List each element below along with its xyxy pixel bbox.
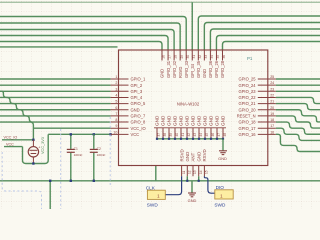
pin 40 stub: [174, 128, 176, 139]
ground symbol right: [219, 150, 227, 152]
wire top pin26 up-left: [0, 42, 162, 51]
pin 46 stub: [210, 128, 212, 139]
svg-text:42: 42: [187, 133, 191, 137]
wire horizontal above IC to left edge: [0, 46, 118, 48]
svg-text:26: 26: [162, 55, 166, 59]
svg-text:20: 20: [270, 106, 274, 110]
junction pin12: [186, 180, 188, 182]
svg-text:43: 43: [193, 133, 197, 137]
wire inner pin tie line: [157, 138, 223, 140]
svg-text:CLK: CLK: [146, 185, 156, 190]
svg-text:18: 18: [270, 118, 274, 122]
svg-text:RSVD: RSVD: [179, 149, 184, 161]
wire pin6 step from left edge: [0, 104, 111, 110]
voltage source plate short: [31, 153, 37, 155]
svg-text:16: 16: [270, 130, 274, 134]
svg-text:GPIO_32: GPIO_32: [172, 60, 177, 78]
svg-text:GPIO_16: GPIO_16: [239, 132, 257, 137]
wire top pin29 up-left: [0, 23, 180, 50]
svg-text:38: 38: [163, 133, 167, 137]
capacitor C1 plates: [67, 148, 75, 150]
wire pin12 to long net: [186, 176, 188, 181]
svg-text:GPIO_5: GPIO_5: [131, 101, 147, 106]
pin 44 end square: [198, 138, 200, 140]
pin 37 stub: [156, 128, 158, 139]
wire pin15 to DIO flag: [204, 176, 214, 193]
svg-text:GND: GND: [160, 69, 165, 78]
wire pin48 to GND: [222, 139, 224, 151]
svg-text:41: 41: [181, 133, 185, 137]
wire top pin34 up-right: [210, 29, 320, 50]
svg-text:ANT: ANT: [191, 152, 196, 161]
wire pin2 GPI_2 to left edge: [0, 84, 111, 86]
junction C2 top: [93, 133, 95, 135]
svg-text:36: 36: [222, 55, 226, 59]
wire source loop bottom: [23, 134, 49, 163]
svg-text:8: 8: [115, 118, 117, 122]
wire pin5 step from left edge: [0, 97, 111, 103]
voltage source bottom stub: [32, 157, 34, 164]
svg-text:29: 29: [180, 55, 184, 59]
svg-text:GPIO_24: GPIO_24: [239, 83, 257, 88]
svg-text:GND: GND: [179, 115, 184, 126]
svg-text:5: 5: [115, 100, 117, 104]
wire right pin24 straight: [276, 84, 320, 86]
net port DIO box: [215, 190, 233, 199]
svg-text:GPIO_7: GPIO_7: [131, 114, 147, 119]
pin 17 GPIO_17 stub: [258, 127, 276, 129]
capacitor C2 plates: [90, 148, 98, 150]
svg-text:C1: C1: [74, 147, 78, 151]
svg-text:46: 46: [211, 133, 215, 137]
svg-text:GPI_34: GPI_34: [190, 63, 195, 78]
pin 8 GPIO_8 stub: [111, 121, 129, 123]
svg-text:40: 40: [175, 133, 179, 137]
pin 14 stub: [198, 166, 200, 177]
svg-text:GPI_3: GPI_3: [131, 89, 143, 94]
wire right pin17 double-step: [276, 128, 320, 140]
pin 36 top stub: [222, 50, 224, 61]
pin 20 GPIO_20 stub: [258, 109, 276, 111]
svg-text:GND: GND: [185, 152, 190, 162]
junction long net drop: [49, 180, 51, 182]
voltage source top stub: [32, 140, 34, 147]
wire right pin22 step-down: [276, 97, 320, 103]
svg-text:GPIO_28: GPIO_28: [220, 60, 225, 78]
svg-text:23: 23: [270, 87, 274, 91]
svg-text:GPIO_8: GPIO_8: [131, 120, 147, 125]
wire pin4 step from left edge: [0, 91, 111, 97]
pin 39 stub: [168, 128, 170, 139]
selection dashed corner bottom-left: [2, 152, 41, 209]
svg-text:GND: GND: [191, 115, 196, 126]
pin 33 top stub: [203, 50, 205, 61]
svg-text:10: 10: [113, 130, 117, 134]
pin 10 VCC stub: [111, 133, 129, 135]
svg-text:GND: GND: [131, 107, 140, 112]
svg-text:GPIO_36: GPIO_36: [208, 60, 213, 78]
svg-text:GPIO_18: GPIO_18: [239, 120, 257, 125]
pin 19 RESET_N stub: [258, 115, 276, 117]
svg-text:GND: GND: [185, 115, 190, 126]
svg-text:GPIO_23: GPIO_23: [239, 89, 257, 94]
wire long bottom net: [0, 180, 320, 182]
svg-text:P1: P1: [247, 56, 253, 61]
svg-text:3: 3: [115, 87, 117, 91]
wire top pin27 up-left: [0, 36, 168, 51]
wire long net to GND: [191, 181, 193, 193]
svg-text:GPIO_22: GPIO_22: [239, 95, 257, 100]
svg-text:14: 14: [199, 170, 203, 174]
inner pin row baseline: [154, 127, 226, 129]
pin 40 end square: [174, 138, 176, 140]
wire pin10 VCC rail: [48, 133, 110, 135]
svg-text:35: 35: [216, 55, 220, 59]
pin 46 end square: [210, 138, 212, 140]
svg-text:30: 30: [186, 55, 190, 59]
junction C1 bottom: [70, 180, 72, 182]
svg-text:4: 4: [115, 93, 117, 97]
wire net VCC_IO stub: [2, 139, 34, 141]
pin 7 GPIO_7 stub: [111, 115, 129, 117]
pin 4 GPI_4 stub: [111, 96, 129, 98]
svg-text:9: 9: [115, 124, 117, 128]
svg-text:19: 19: [270, 112, 274, 116]
svg-text:SWD: SWD: [214, 202, 226, 207]
pin 22 GPIO_22 stub: [258, 96, 276, 98]
svg-text:2: 2: [115, 81, 117, 85]
wire right pin16 deep step: [276, 134, 320, 151]
wire net VCC stub: [4, 146, 23, 148]
wire pin9 VCC_IO step and drop to source: [0, 122, 33, 140]
IC U1 NINA-W102 outline: [119, 50, 268, 166]
wire right pin18 double-step: [276, 122, 320, 134]
svg-text:45: 45: [205, 133, 209, 137]
pin 35 top stub: [215, 50, 217, 61]
svg-text:GPIO_31: GPIO_31: [166, 60, 171, 78]
wire top pin35 up-right: [216, 36, 320, 51]
pin 39 end square: [168, 138, 170, 140]
svg-text:GND: GND: [215, 115, 220, 126]
voltage source plate long: [29, 149, 37, 151]
wire cap C2 top: [93, 134, 95, 149]
selection dashed vertical x110: [109, 117, 111, 186]
junction source bottom: [32, 162, 34, 164]
svg-text:RSVD: RSVD: [202, 149, 207, 161]
pin 3 GPI_3 stub: [111, 90, 129, 92]
svg-text:GND: GND: [221, 115, 226, 126]
svg-text:48: 48: [223, 133, 227, 137]
pin 48 end square: [222, 138, 224, 140]
pin 13 stub: [192, 166, 194, 177]
junction pin14: [198, 180, 200, 182]
pin 42 end square: [186, 138, 188, 140]
svg-text:GPI_2: GPI_2: [131, 83, 143, 88]
pin 38 stub: [162, 128, 164, 139]
svg-text:25: 25: [270, 75, 274, 79]
pin 28 top stub: [173, 50, 175, 61]
pin 2 GPI_2 stub: [111, 84, 129, 86]
svg-text:GND: GND: [155, 115, 160, 126]
pin 41 stub: [180, 128, 182, 139]
pin 42 stub: [186, 128, 188, 139]
svg-text:12: 12: [188, 170, 192, 174]
wire top pin36 up-right: [223, 42, 320, 51]
pin 43 end square: [192, 138, 194, 140]
svg-text:DIO: DIO: [216, 185, 225, 190]
svg-text:GPIO_1: GPIO_1: [131, 77, 147, 82]
svg-text:GND: GND: [188, 198, 197, 203]
svg-text:GND: GND: [196, 152, 201, 162]
svg-text:44: 44: [199, 133, 203, 137]
svg-text:6: 6: [115, 106, 117, 110]
wire top pin28 up-left: [0, 30, 174, 51]
wire pin11 to CLK flag: [166, 176, 182, 194]
wire under IC to long net: [155, 166, 157, 181]
svg-text:11: 11: [182, 170, 186, 174]
wire right pin25 straight: [276, 78, 320, 80]
pin 48 stub: [222, 128, 224, 139]
svg-text:GND: GND: [218, 156, 227, 161]
svg-text:34: 34: [210, 55, 214, 59]
pin 5 GPIO_5 stub: [111, 103, 129, 105]
wire pin3 GPI_3 to left edge: [0, 90, 111, 92]
pin 27 top stub: [167, 50, 169, 61]
wire cap C1 bottom: [70, 153, 72, 181]
pin 15 stub: [203, 166, 205, 177]
pin 23 GPIO_23 stub: [258, 90, 276, 92]
pin 16 GPIO_16 stub: [258, 133, 276, 135]
svg-text:GND: GND: [167, 115, 172, 126]
pin 26 top stub: [161, 50, 163, 61]
voltage source B1 circle: [28, 147, 38, 157]
svg-text:GPIO_21: GPIO_21: [239, 101, 257, 106]
svg-text:GPIO_25: GPIO_25: [239, 77, 257, 82]
svg-text:28: 28: [174, 55, 178, 59]
junction C2 bottom: [93, 180, 95, 182]
svg-text:GND: GND: [209, 115, 214, 126]
pin 21 GPIO_21 stub: [258, 103, 276, 105]
svg-text:13: 13: [193, 170, 197, 174]
pin 47 stub: [216, 128, 218, 139]
pin 38 end square: [162, 138, 164, 140]
net port CLK box: [147, 190, 165, 199]
svg-text:VCC_IO: VCC_IO: [4, 136, 18, 140]
selection dashed vertical x60: [60, 129, 62, 209]
pin 47 end square: [216, 138, 218, 140]
svg-text:GPI_4: GPI_4: [131, 95, 143, 100]
svg-text:17: 17: [270, 124, 274, 128]
wire top pin31 up-left: [191, 2, 193, 50]
svg-text:24: 24: [270, 81, 274, 85]
pin 41 end square: [180, 138, 182, 140]
svg-text:GPIO_17: GPIO_17: [239, 126, 257, 131]
svg-text:VCC_3V3: VCC_3V3: [41, 137, 45, 154]
wire right pin23 straight: [276, 90, 320, 92]
svg-text:SWD: SWD: [147, 203, 159, 208]
svg-text:15: 15: [205, 170, 209, 174]
wire pin7 step from left edge: [0, 110, 111, 116]
wire pin8 step from left edge: [0, 116, 111, 122]
svg-text:37: 37: [157, 133, 161, 137]
pin 11 stub: [181, 166, 183, 177]
svg-text:VCC: VCC: [131, 132, 140, 137]
wire right pin21 step-down: [276, 104, 320, 110]
svg-text:VCC_IO: VCC_IO: [131, 126, 146, 131]
pin 29 top stub: [179, 50, 181, 61]
pin 34 top stub: [209, 50, 211, 61]
svg-text:GND: GND: [202, 69, 207, 78]
svg-text:GPIO_35: GPIO_35: [196, 60, 201, 78]
svg-text:22: 22: [270, 93, 274, 97]
pin 1 GPIO_1 stub: [111, 78, 129, 80]
junction VCC rail end: [109, 133, 111, 135]
pin 31 top stub: [191, 50, 193, 61]
wire pin9 VCC_IO run: [33, 127, 110, 129]
wire cap C1 top: [70, 134, 72, 149]
svg-text:GPIO_26: GPIO_26: [214, 60, 219, 78]
svg-text:21: 21: [270, 100, 274, 104]
svg-text:VCC: VCC: [6, 142, 14, 146]
junction source top: [32, 139, 34, 141]
wire top pin33 up-right: [204, 23, 320, 51]
pin 32 top stub: [197, 50, 199, 61]
pin 9 VCC_IO stub: [111, 127, 129, 129]
pin 6 GND stub: [111, 109, 129, 111]
pin 24 GPIO_24 stub: [258, 84, 276, 86]
svg-text:RESET_N: RESET_N: [237, 114, 256, 119]
svg-text:GPIO_20: GPIO_20: [239, 107, 257, 112]
svg-text:+: +: [38, 146, 40, 150]
wire pin14 to long net: [198, 176, 200, 181]
wire right pin20 double-step: [276, 110, 320, 122]
svg-text:31: 31: [192, 55, 196, 59]
svg-text:100nF: 100nF: [97, 153, 106, 157]
ground symbol bottom: [188, 192, 196, 194]
wire pin1 GPIO_1 to left edge: [0, 78, 111, 80]
pin 12 stub: [186, 166, 188, 177]
pin 45 stub: [204, 128, 206, 139]
junction C1 top: [70, 133, 72, 135]
svg-text:RSVD: RSVD: [178, 67, 183, 78]
svg-text:1: 1: [115, 75, 117, 79]
svg-text:32: 32: [198, 55, 202, 59]
svg-text:C2: C2: [97, 147, 101, 151]
svg-text:GND: GND: [173, 115, 178, 126]
svg-text:GPIO_33: GPIO_33: [184, 60, 189, 78]
wire drop from long net: [49, 181, 51, 209]
pin 45 end square: [204, 138, 206, 140]
svg-text:GND: GND: [161, 115, 166, 126]
pin 37 end square: [156, 138, 158, 140]
svg-text:47: 47: [217, 133, 221, 137]
svg-text:GND: GND: [197, 115, 202, 126]
svg-text:33: 33: [204, 55, 208, 59]
svg-text:7: 7: [115, 112, 117, 116]
wire cap C2 bottom: [93, 153, 95, 181]
pin 43 stub: [192, 128, 194, 139]
svg-text:NINA-W102: NINA-W102: [177, 101, 200, 106]
pin 25 GPIO_25 stub: [258, 78, 276, 80]
svg-text:27: 27: [168, 55, 172, 59]
wire top bus faint full-width: [0, 1, 320, 3]
pin 44 stub: [198, 128, 200, 139]
svg-text:39: 39: [169, 133, 173, 137]
pin 30 top stub: [185, 50, 187, 61]
svg-text:100nF: 100nF: [74, 153, 83, 157]
wire top pin30 up-left: [0, 17, 186, 51]
wire right pin19 double-step: [276, 116, 320, 128]
svg-text:GND: GND: [203, 115, 208, 126]
pin 18 GPIO_18 stub: [258, 121, 276, 123]
wire top pin32 up-right: [198, 16, 320, 50]
